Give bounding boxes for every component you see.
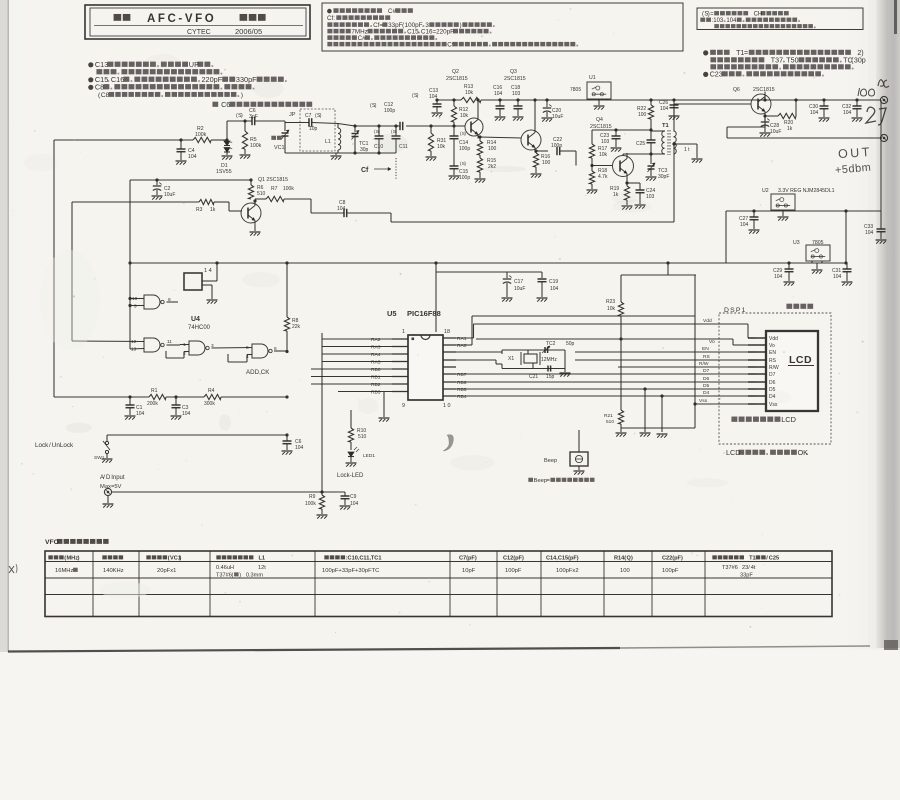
svg-text:10uF: 10uF: [552, 114, 563, 120]
wire: Q1 base line: [72, 201, 199, 203]
svg-text:200k: 200k: [147, 401, 158, 407]
svg-text:C7: C7: [305, 113, 312, 119]
svg-text:1k: 1k: [210, 207, 216, 213]
capacitor C12 100p: [399, 122, 401, 130]
svg-text:): ): [460, 22, 462, 29]
svg-text:33pF: 33pF: [388, 22, 403, 29]
wire: Vcc rail: [130, 262, 847, 264]
dashed select box around C7/L1: [300, 109, 335, 151]
svg-text:22k: 22k: [292, 324, 301, 330]
transistor Q4: [613, 156, 634, 177]
U5 right pin 17: [443, 344, 456, 346]
svg-text:2SC1815: 2SC1815: [753, 87, 775, 93]
svg-text:): ): [631, 556, 633, 562]
svg-text:L1: L1: [325, 139, 331, 145]
svg-text:0.46uH: 0.46uH: [216, 565, 234, 571]
svg-text:20pFx1: 20pFx1: [157, 568, 176, 574]
svg-text:R23: R23: [606, 299, 615, 305]
svg-text:RA0: RA0: [457, 343, 467, 349]
svg-text:U4: U4: [191, 316, 200, 323]
wire: R/W line: [618, 366, 756, 368]
svg-text:12t: 12t: [258, 565, 266, 571]
svg-text:R1: R1: [151, 388, 158, 394]
svg-text:VFO: VFO: [45, 539, 59, 546]
capacitor C33 104: [880, 211, 882, 229]
wire: U2 to U3 link: [844, 209, 847, 212]
C13 adjustment notes: [88, 62, 93, 67]
svg-text:100pF: 100pF: [662, 568, 679, 574]
svg-text:LCD: LCD: [726, 448, 740, 457]
svg-text:74HC00: 74HC00: [188, 325, 211, 331]
svg-text:Vo: Vo: [769, 343, 775, 349]
wire: RA0 line: [456, 344, 472, 346]
svg-text:LED1: LED1: [363, 453, 375, 459]
svg-text:D5: D5: [703, 383, 710, 389]
svg-text:Beep: Beep: [534, 478, 548, 484]
resistor R14 100: [479, 137, 481, 141]
LCD pin R/W: [748, 366, 766, 368]
ground: U1: [598, 100, 600, 105]
svg-text:Cf=: Cf=: [373, 22, 383, 29]
wire: Q4 collector line: [622, 154, 624, 156]
svg-text:104: 104: [429, 94, 438, 100]
wire: Vo line: [476, 338, 733, 340]
svg-text:104: 104: [833, 274, 842, 280]
svg-text:1k: 1k: [787, 126, 793, 132]
svg-text:Q6: Q6: [733, 87, 740, 93]
capacitor C9 104: [322, 491, 345, 493]
svg-text:100pFx2: 100pFx2: [556, 568, 579, 574]
svg-text:1 0: 1 0: [443, 403, 451, 409]
wire: RS line: [575, 359, 756, 361]
svg-text:103: 103: [601, 139, 610, 145]
handwritten marks: [858, 88, 875, 96]
Cf virtual capacitor dashed: [395, 158, 397, 180]
capacitor C18 103: [516, 98, 519, 101]
margin mark: [9, 566, 14, 573]
svg-text:104: 104: [188, 154, 197, 160]
U5 right pin 10: [443, 395, 456, 397]
svg-text:104: 104: [810, 110, 819, 116]
svg-text:510: 510: [358, 434, 367, 440]
wire: RB rows left: [311, 368, 392, 370]
svg-text:104: 104: [843, 110, 852, 116]
svg-text:100pF: 100pF: [505, 568, 522, 574]
svg-text:): ): [78, 556, 80, 562]
svg-text:3.3V REG NJM2845DL1: 3.3V REG NJM2845DL1: [778, 188, 835, 194]
svg-text:RB3: RB3: [371, 390, 381, 396]
LCD pin Vo: [748, 344, 766, 346]
svg-text:RB0: RB0: [371, 367, 381, 373]
capacitor C17 10uF: [434, 261, 437, 264]
svg-text:): ): [180, 556, 182, 562]
wire: Q3 collector: [534, 100, 536, 129]
title block frame: [85, 5, 310, 39]
U4 bypass square: [184, 273, 202, 290]
resistor R7 100k: [255, 198, 266, 200]
regulator U1 7805: [587, 82, 611, 99]
capacitor C31 104: [846, 263, 848, 269]
svg-text:ADD,CK: ADD,CK: [246, 369, 270, 376]
U5 right pin 12: [443, 381, 456, 383]
svg-text:T1: T1: [749, 556, 756, 562]
svg-text:Beep: Beep: [544, 458, 557, 464]
svg-text:R9: R9: [309, 494, 316, 500]
svg-text:Lock-LED: Lock-LED: [337, 473, 364, 479]
svg-text:12MHz: 12MHz: [541, 357, 557, 363]
wire: control filter line: [54, 396, 149, 398]
svg-text:Q2: Q2: [452, 69, 459, 75]
U5 left pin 2: [392, 346, 408, 348]
variable capacitor VC1 (tuning): [284, 121, 286, 131]
svg-text:T37#6: T37#6: [216, 573, 232, 579]
svg-text:Q4: Q4: [596, 117, 603, 123]
svg-text:D6: D6: [769, 380, 776, 386]
trimmer TC1 30p: [353, 124, 356, 127]
svg-text:100k: 100k: [250, 143, 262, 149]
svg-text:13: 13: [131, 347, 137, 353]
capacitor C15 100p: [450, 165, 459, 167]
svg-text:10k: 10k: [607, 306, 616, 312]
svg-text:10k: 10k: [437, 144, 446, 150]
svg-text::103: :103: [712, 18, 724, 24]
resistor R2 100k: [193, 137, 211, 142]
U5 left pin 1: [392, 338, 408, 340]
capacitor C20 10uF: [545, 98, 548, 101]
capacitor C24 103: [639, 183, 641, 190]
coil T1 notes: [703, 50, 708, 55]
svg-text:=: =: [710, 12, 714, 18]
connector: DC terminal: [880, 96, 887, 103]
capacitor C23 103: [614, 128, 617, 131]
svg-text:33pF: 33pF: [740, 573, 753, 579]
svg-text:SW1: SW1: [94, 455, 105, 461]
wire: D5 line: [456, 388, 756, 390]
svg-text:C22(pF): C22(pF): [662, 556, 683, 562]
svg-text:D6: D6: [703, 376, 710, 382]
svg-text:2SC1815: 2SC1815: [590, 124, 612, 130]
IC U5 PIC16F88 body: [408, 335, 443, 400]
svg-text:Cf:: Cf:: [327, 15, 335, 22]
svg-text:104: 104: [550, 286, 559, 292]
svg-text:=: =: [744, 49, 748, 57]
wire: gate output to PIC: [274, 350, 287, 352]
transistor Q1 2SC1815: [241, 203, 261, 223]
svg-text:104: 104: [660, 106, 669, 112]
svg-text:330pF: 330pF: [236, 75, 257, 84]
capacitor C27 104: [752, 209, 755, 212]
svg-text:RS: RS: [769, 358, 777, 364]
svg-text:OK: OK: [798, 448, 809, 457]
U5 left pin 7: [392, 383, 408, 385]
capacitor C19 104: [541, 272, 543, 278]
svg-text:LCD: LCD: [789, 354, 812, 366]
scanner right page curl: [868, 0, 878, 648]
svg-text:Vdd: Vdd: [769, 336, 778, 342]
svg-text:RA4: RA4: [371, 352, 381, 358]
LCD pin D5: [748, 388, 766, 390]
svg-text:L1: L1: [259, 556, 266, 562]
svg-text:2SC1815: 2SC1815: [446, 76, 468, 82]
svg-text:100: 100: [488, 146, 497, 152]
svg-text:C6: C6: [221, 100, 230, 109]
wire: output coupling: [764, 116, 766, 127]
resistor R13 10k: [461, 97, 481, 102]
wire: D4 line: [456, 395, 756, 397]
title text: [114, 14, 122, 21]
wire: rail right edge vertical: [880, 100, 882, 211]
resistor R22 100: [649, 98, 652, 101]
svg-text:104: 104: [136, 411, 145, 417]
svg-text:220pF: 220pF: [202, 75, 223, 84]
svg-text:): ): [241, 92, 243, 99]
svg-text:): ): [241, 113, 243, 119]
svg-text:RB5: RB5: [457, 387, 467, 393]
svg-text:30p: 30p: [854, 57, 866, 65]
svg-text:2006/05: 2006/05: [235, 27, 262, 36]
capacitor C13 104: [435, 98, 438, 101]
U5 right pin 15: [443, 359, 456, 361]
ground: tank: [335, 153, 337, 155]
LCD note: [731, 417, 737, 422]
svg-text:C14,C15(pF): C14,C15(pF): [546, 556, 579, 562]
svg-text:100p: 100p: [384, 108, 395, 114]
wire: ground return bus: [621, 427, 695, 429]
ground: crystal: [564, 369, 566, 373]
svg-text:103: 103: [512, 91, 521, 97]
svg-text:11: 11: [167, 339, 172, 345]
svg-text:JP: JP: [289, 112, 296, 118]
svg-text:RB2: RB2: [371, 382, 381, 388]
svg-text:EN: EN: [702, 346, 709, 352]
svg-text:RB1: RB1: [371, 375, 381, 381]
capacitor C8 104: [310, 199, 312, 213]
wire: Vss line: [695, 403, 756, 405]
wire: RB3 program line: [383, 392, 385, 417]
svg-text:C9: C9: [350, 494, 357, 500]
capacitor C11: [394, 124, 397, 127]
svg-text:10pF: 10pF: [462, 568, 476, 574]
resistor R15 2k2: [479, 155, 481, 158]
svg-text:RA5: RA5: [371, 360, 381, 366]
svg-text:C8: C8: [101, 92, 110, 99]
wire: 3.3V to left: [725, 211, 727, 263]
svg-text:1SV55: 1SV55: [216, 169, 232, 175]
transistor Q2 2SC1815: [465, 118, 483, 136]
svg-text:T1: T1: [662, 123, 670, 129]
svg-text:CYTEC: CYTEC: [187, 29, 211, 36]
svg-text:Cf: Cf: [361, 167, 369, 174]
wire: pin9 ground: [391, 398, 393, 400]
resistor R23 10k (Vo divider top): [666, 261, 669, 264]
wire: Vdd feed to U5: [435, 272, 437, 332]
svg-text:104: 104: [337, 206, 346, 212]
LCD pin Vss: [748, 403, 766, 405]
svg-text:R14(: R14(: [614, 556, 626, 562]
wire: RA rows left: [322, 338, 392, 340]
svg-text:R/W: R/W: [769, 365, 779, 371]
LED1 Lock-LED: [348, 452, 354, 457]
svg-text:10k: 10k: [460, 113, 469, 119]
varactor D1 1SV55: [225, 138, 228, 141]
U5 right pin 18: [443, 337, 456, 339]
paper bottom edge: [8, 648, 620, 652]
LCD pin D4: [748, 395, 766, 397]
U5 right pin 16: [443, 351, 456, 353]
svg-text:Vdd: Vdd: [703, 318, 712, 324]
svg-text:DSP1: DSP1: [724, 307, 747, 314]
svg-text:2SC1815: 2SC1815: [504, 76, 526, 82]
capacitor C26 104: [672, 98, 675, 101]
C6 adjust note: [212, 102, 218, 107]
svg-text:100pF+33pF+30pFTC: 100pF+33pF+30pFTC: [322, 568, 379, 574]
scan artifact squiggle: [443, 435, 453, 451]
wire: Q4 emitter node: [626, 177, 628, 183]
svg-text:12: 12: [131, 339, 137, 345]
svg-text:R7: R7: [271, 186, 278, 192]
wire: A/D vertical: [321, 333, 323, 492]
ground: Q1 emitter: [254, 226, 256, 232]
resistor R1 200k: [149, 394, 166, 399]
resistor R20 1k: [765, 115, 778, 117]
capacitor C25: [650, 130, 652, 140]
svg-text:3pF: 3pF: [249, 114, 258, 120]
LCD module box: [766, 331, 818, 411]
wire: tank bottom rail: [285, 152, 396, 154]
svg-text:/: /: [49, 442, 51, 449]
resistor R21 510 (Vo divider bottom): [620, 339, 622, 410]
svg-text:4.7k: 4.7k: [598, 174, 608, 180]
svg-text:U3: U3: [793, 240, 800, 246]
capacitor C6 104: [286, 435, 288, 441]
wire: T1 secondary tap: [672, 142, 675, 145]
svg-text:100k: 100k: [283, 186, 294, 192]
svg-text:Cf: Cf: [447, 42, 453, 49]
svg-text:10p: 10p: [309, 126, 318, 132]
resistor R16 100: [535, 150, 536, 153]
wire: left feedback vertical: [53, 140, 55, 397]
DSP1 dashed box: [719, 313, 831, 444]
wire: A/D line: [112, 491, 323, 493]
svg-text:LCD: LCD: [781, 415, 796, 424]
(S) multilayer ceramic note box: [697, 8, 863, 30]
svg-text:100k: 100k: [305, 501, 316, 507]
svg-text:R21: R21: [604, 413, 613, 419]
svg-text:Q1 2SC1815: Q1 2SC1815: [258, 177, 288, 183]
resistor R6 510: [249, 178, 252, 181]
svg-text:15p: 15p: [546, 374, 555, 380]
svg-text:104: 104: [740, 222, 749, 228]
transistor Q3 2SC1815: [521, 130, 541, 150]
NAND gate U4c: [189, 341, 205, 355]
svg-text:104: 104: [295, 445, 304, 451]
svg-text:UnLock: UnLock: [52, 442, 74, 449]
svg-text:100p: 100p: [459, 175, 470, 181]
svg-text:AFC-VFO: AFC-VFO: [147, 13, 216, 25]
U5 left pin 4: [392, 361, 408, 363]
svg-text:510: 510: [606, 419, 614, 425]
svg-text:Lock: Lock: [35, 442, 49, 449]
wire: D7 line: [456, 373, 756, 375]
svg-text:Vo: Vo: [709, 339, 715, 345]
wire: Q6 emitter node: [764, 114, 766, 116]
wire: Q2 collector: [477, 100, 479, 117]
NAND gate U4d: [252, 344, 268, 358]
wire: U2 3.3V rail: [726, 210, 881, 212]
wire: Q6 collector to rail: [764, 94, 766, 100]
U5 right pin 13: [443, 373, 456, 375]
table headers: [48, 555, 52, 559]
svg-text:RS: RS: [703, 354, 711, 360]
svg-text:10uF: 10uF: [514, 286, 525, 292]
LCD pin Vdd: [748, 337, 766, 339]
svg-text:30p: 30p: [360, 147, 369, 153]
resistor R10 510: [350, 410, 352, 428]
svg-text:R4: R4: [208, 388, 215, 394]
capacitor C32 104: [855, 98, 858, 101]
svg-text:104: 104: [350, 501, 359, 507]
U5 right pin 11: [443, 388, 456, 390]
svg-text:U2: U2: [762, 188, 769, 194]
svg-text:100: 100: [638, 112, 647, 118]
connector: RF out terminal: [880, 134, 887, 141]
smudges: [99, 582, 151, 598]
U5 left pin 5: [392, 368, 408, 370]
capacitor C4 104: [179, 138, 182, 141]
capacitor C28 10uF: [764, 116, 766, 121]
resistor R19 1k: [624, 186, 629, 200]
svg-text:D4: D4: [703, 390, 710, 396]
svg-text:RB6: RB6: [457, 380, 467, 386]
scanner left edge: [0, 0, 9, 652]
wire: +V top rail: [437, 99, 461, 101]
svg-text:RA2: RA2: [371, 337, 381, 343]
resistor R17 10k: [591, 130, 593, 144]
resistor R31 10k: [429, 124, 432, 127]
svg-text:C15: C15: [407, 29, 419, 36]
resistor R9 100k: [321, 492, 323, 495]
svg-text:D7: D7: [703, 368, 710, 374]
svg-text:RA3: RA3: [371, 345, 381, 351]
svg-text:103: 103: [646, 194, 655, 200]
svg-text:510: 510: [257, 191, 266, 197]
svg-text:OUT: OUT: [838, 145, 873, 161]
svg-text:100: 100: [620, 568, 630, 574]
transistor Q6 2SC1815: [751, 94, 771, 114]
wire: U4 pin14 tap: [215, 261, 218, 264]
svg-text:140KHz: 140KHz: [103, 568, 124, 574]
resistor R4 300k: [204, 394, 221, 399]
svg-text:EN: EN: [769, 350, 776, 356]
wire: switch to C6 line: [107, 434, 287, 436]
svg-text:R/W: R/W: [699, 361, 709, 367]
resistor R8 22k: [285, 261, 288, 264]
svg-text:C25: C25: [636, 141, 645, 147]
wire: Q4 bias line: [592, 129, 651, 131]
svg-text:C13: C13: [95, 60, 108, 69]
svg-text:10k: 10k: [599, 152, 608, 158]
table frame: [45, 551, 832, 617]
svg-text:104: 104: [494, 91, 503, 97]
svg-text:50p: 50p: [566, 341, 575, 347]
wire: T1 to Q6 base: [673, 104, 675, 131]
svg-text:100: 100: [542, 160, 551, 166]
wire: Q2 emitter to Q3 base: [478, 136, 480, 139]
svg-text:): ): [239, 573, 241, 579]
svg-text:Q3: Q3: [510, 69, 517, 75]
svg-text:9: 9: [402, 403, 405, 409]
svg-text:1: 1: [402, 329, 405, 335]
